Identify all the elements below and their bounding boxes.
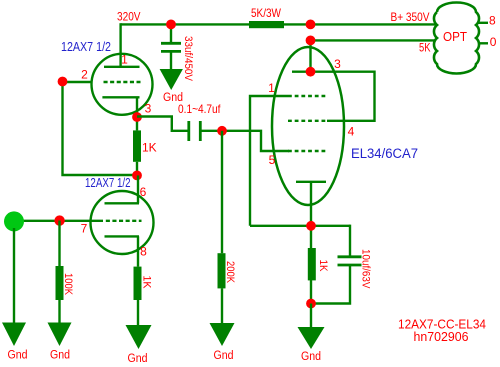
tube EL34 grid g3 pin1 (dashed) xyxy=(288,95,327,97)
tube EL34 envelope xyxy=(272,47,344,205)
tube V2 plate bar xyxy=(105,202,140,204)
wire coupling cap to grid node xyxy=(200,130,222,132)
svg-text:1K: 1K xyxy=(141,276,153,290)
capacitor 0.1~4.7uf plate 2 xyxy=(199,121,202,141)
wire 33uf stem from rail xyxy=(170,24,172,43)
tube V2 cathode bar xyxy=(105,235,140,237)
junction dot rail above EL34 xyxy=(306,20,316,30)
wire cathode node to 10uf xyxy=(349,225,351,257)
svg-text:3: 3 xyxy=(145,102,152,116)
svg-text:6: 6 xyxy=(140,185,147,199)
input terminal (green dot) xyxy=(4,211,24,231)
capacitor 0.1~4.7uf plate 1 xyxy=(187,121,190,141)
resistor 100K xyxy=(56,266,64,300)
tube EL34 cathode bar xyxy=(296,181,326,183)
svg-text:Gnd: Gnd xyxy=(128,353,148,365)
junction dot V1 grid xyxy=(58,77,68,87)
svg-text:1: 1 xyxy=(268,81,275,95)
wire V2 grid lead to input xyxy=(14,220,103,222)
ground under 100K xyxy=(48,323,72,347)
svg-text:5: 5 xyxy=(269,153,276,167)
tube V2 12AX7 envelope xyxy=(91,191,154,254)
svg-text:hn702906: hn702906 xyxy=(414,329,469,344)
svg-text:Gnd: Gnd xyxy=(301,351,321,363)
svg-text:12AX7 1/2: 12AX7 1/2 xyxy=(85,176,131,190)
wire grid node to EL34 g1 (pin5) xyxy=(222,131,289,151)
wire junction to 100K xyxy=(58,221,60,267)
resistor 1K (EL34 cathode) xyxy=(308,248,316,280)
wire 200K to ground xyxy=(221,288,223,323)
resistor 1K (V2 cathode) xyxy=(134,267,142,300)
junction dot 5K line xyxy=(306,36,316,46)
svg-text:10uf/63V: 10uf/63V xyxy=(360,249,372,289)
svg-text:B+ 350V: B+ 350V xyxy=(391,10,430,24)
wire V2 1K to ground xyxy=(137,300,139,325)
wire EL34 plate feed vertical xyxy=(309,40,311,71)
tube V2 grid (dashed) xyxy=(106,220,142,222)
tube V1 cathode bar xyxy=(102,96,139,98)
junction dot V2 plate node xyxy=(132,171,142,181)
wire EL34 1K to bottom node xyxy=(310,280,312,304)
wire 10uf to bottom node xyxy=(311,265,350,304)
svg-text:0.1~4.7uf: 0.1~4.7uf xyxy=(178,102,221,116)
tube EL34 grid g2 pin4 (dashed) xyxy=(288,120,327,122)
svg-text:EL34/6CA7: EL34/6CA7 xyxy=(351,146,418,161)
wire V2 plate lead up xyxy=(137,175,139,203)
transformer OPT body xyxy=(434,2,479,73)
wire B+ rail 320V horizontal xyxy=(121,23,436,25)
wire EL34 g3 to cathode node xyxy=(250,96,288,226)
wire 100K to ground xyxy=(58,300,60,323)
ground under 200K xyxy=(210,323,235,346)
tube EL34 grid g1 pin5 (dashed) xyxy=(288,150,327,152)
tube EL34 plate bar and g2 loop xyxy=(292,72,375,121)
wire OPT secondary pin 8 xyxy=(478,22,488,24)
svg-text:8: 8 xyxy=(489,14,496,28)
wire V1 grid down (feedback) xyxy=(63,82,138,176)
svg-text:3: 3 xyxy=(334,57,341,71)
ground under EL34 cathode xyxy=(298,327,325,349)
capacitor 33uf/450V plate 2 xyxy=(161,50,181,53)
capacitor 10uf/63V plate 1 xyxy=(338,255,362,258)
tube V1 plate bar xyxy=(104,66,140,68)
svg-text:Gnd: Gnd xyxy=(8,350,28,362)
capacitor 10uf/63V plate 2 xyxy=(338,264,362,267)
wire input dot to ground xyxy=(13,228,15,323)
junction dot coupling output xyxy=(217,126,227,136)
wire grid node down to 200K xyxy=(221,131,223,253)
resistor 1K (V1 cathode) xyxy=(133,130,141,161)
svg-text:1K: 1K xyxy=(142,141,157,155)
tube V1 grid (dashed) xyxy=(104,81,141,83)
wire bottom node to ground xyxy=(310,304,312,328)
wire cathode node horizontal xyxy=(250,225,350,227)
wire V1 cathode to coupling cap xyxy=(137,117,188,131)
ground under V2 1K xyxy=(126,325,152,349)
svg-text:1K: 1K xyxy=(317,260,329,273)
svg-text:0: 0 xyxy=(490,35,497,49)
svg-text:OPT: OPT xyxy=(443,30,467,44)
tube V1 12AX7 envelope xyxy=(92,54,153,115)
svg-text:7: 7 xyxy=(81,222,88,236)
svg-text:100K: 100K xyxy=(62,273,74,296)
svg-text:5K/3W: 5K/3W xyxy=(251,6,282,20)
svg-text:320V: 320V xyxy=(117,10,141,24)
capacitor 33uf/450V plate 1 xyxy=(161,42,181,45)
svg-text:2: 2 xyxy=(81,68,88,82)
junction dot 320V/33uf xyxy=(166,20,176,30)
svg-text:4: 4 xyxy=(348,125,355,139)
junction dot V2 grid/100K xyxy=(54,215,64,225)
junction dot EL34 cathode xyxy=(306,221,316,231)
wire OPT secondary pin 0 xyxy=(478,42,488,44)
ground under 33uf xyxy=(160,69,183,90)
junction dot V1 cathode xyxy=(132,112,142,122)
svg-text:12AX7 1/2: 12AX7 1/2 xyxy=(61,40,111,54)
svg-text:5K: 5K xyxy=(419,41,431,55)
wire 1K to V2 plate node xyxy=(136,162,138,176)
wire 5K line to OPT xyxy=(311,39,437,41)
wire V1 cathode lead xyxy=(136,97,138,130)
svg-text:1: 1 xyxy=(121,53,128,67)
svg-text:200K: 200K xyxy=(224,261,236,284)
resistor 200K xyxy=(218,253,226,288)
wire V2 cathode lead xyxy=(137,236,139,266)
junction dot EL34 plate xyxy=(306,67,316,77)
ground under input xyxy=(2,323,26,347)
svg-text:Gnd: Gnd xyxy=(50,350,70,362)
svg-text:Gnd: Gnd xyxy=(214,350,234,362)
wire 320V vertical to V1 plate xyxy=(119,23,121,67)
svg-text:8: 8 xyxy=(140,245,147,259)
wire 33uf to ground xyxy=(170,51,172,70)
wire V1 grid lead xyxy=(63,81,92,83)
resistor 5K/3W xyxy=(249,21,284,28)
wire EL34 cathode down xyxy=(310,182,312,248)
junction dot bottom node xyxy=(306,299,316,309)
svg-text:33uf/450V: 33uf/450V xyxy=(182,36,194,82)
